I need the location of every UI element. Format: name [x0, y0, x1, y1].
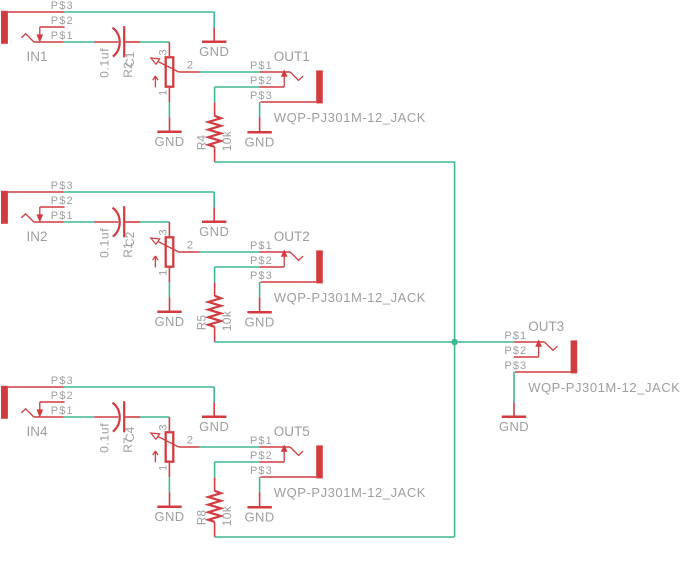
svg-text:GND: GND [154, 509, 184, 524]
capacitor C2 [94, 206, 140, 237]
svg-text:IN2: IN2 [27, 229, 48, 244]
svg-text:P$3: P$3 [250, 270, 273, 282]
svg-text:GND: GND [199, 419, 229, 434]
wire mix bus (vertical) [454, 162, 456, 537]
output jack OUT2 (WQP-PJ301M-12) [259, 250, 322, 283]
wire C1 to R2 pin 3 [140, 41, 169, 43]
wire C4 to R7 pin 3 [140, 416, 169, 418]
svg-text:P$1: P$1 [250, 240, 273, 252]
wire OUT1 P$2 to R4 [215, 87, 260, 103]
wire IN1 P$3 to GND [64, 12, 215, 28]
svg-text:P$3: P$3 [51, 180, 74, 192]
svg-text:P$1: P$1 [51, 30, 74, 42]
svg-text:2: 2 [187, 240, 193, 252]
svg-text:GND: GND [245, 510, 275, 525]
svg-text:GND: GND [154, 134, 184, 149]
svg-text:C1: C1 [123, 51, 137, 67]
svg-text:P$1: P$1 [51, 210, 74, 222]
wire IN1 P$1 to C1 [64, 41, 95, 43]
output jack OUT5 (WQP-PJ301M-12) [259, 445, 322, 478]
input jack IN2 (WQP-PJ301M-12) [1, 191, 65, 224]
svg-text:1: 1 [157, 90, 169, 96]
svg-text:P$2: P$2 [51, 15, 74, 27]
svg-text:IN4: IN4 [27, 424, 49, 439]
wire R8 to mix bus [215, 536, 455, 538]
svg-text:R4: R4 [194, 135, 208, 151]
svg-text:WQP-PJ301M-12_JACK: WQP-PJ301M-12_JACK [274, 290, 426, 305]
svg-text:P$1: P$1 [250, 435, 273, 447]
svg-text:C4: C4 [123, 426, 137, 442]
ground (OUT3) [499, 402, 529, 434]
wire OUT1 P$3 to GND [259, 102, 261, 117]
svg-text:R5: R5 [194, 315, 208, 331]
svg-text:P$3: P$3 [250, 465, 273, 477]
ground (OUT2) [245, 297, 275, 329]
svg-text:P$1: P$1 [51, 405, 74, 417]
ground (IN2 sleeve) [199, 208, 229, 240]
svg-text:P$3: P$3 [51, 0, 74, 12]
svg-text:P$2: P$2 [504, 345, 527, 357]
wire R7 pin 1 to GND [168, 477, 170, 492]
ground (OUT5) [245, 492, 275, 524]
ground (R7) [154, 492, 184, 524]
svg-text:3: 3 [158, 49, 170, 55]
svg-text:3: 3 [158, 424, 170, 430]
svg-text:3: 3 [158, 229, 170, 235]
wire R1 pin 2 to OUT2 P$1 [200, 251, 260, 253]
svg-text:GND: GND [154, 314, 184, 329]
svg-text:P$2: P$2 [250, 75, 273, 87]
svg-text:GND: GND [245, 315, 275, 330]
wire C2 to R1 pin 3 [140, 221, 169, 223]
wire OUT5 P$3 to GND [259, 477, 261, 492]
resistor R5 10k [208, 283, 221, 342]
input jack IN4 (WQP-PJ301M-12) [1, 386, 65, 419]
svg-text:GND: GND [199, 224, 229, 239]
svg-text:C2: C2 [123, 231, 137, 247]
svg-text:GND: GND [199, 44, 229, 59]
svg-text:GND: GND [245, 135, 275, 150]
svg-text:P$2: P$2 [250, 450, 273, 462]
ground (OUT1) [245, 117, 275, 149]
potentiometer R7 [151, 417, 200, 477]
wire IN4 P$1 to C4 [64, 416, 95, 418]
ground (IN1 sleeve) [199, 28, 229, 60]
svg-text:10k: 10k [220, 130, 234, 151]
wire IN4 P$3 to GND [64, 387, 215, 403]
junction mix bus / OUT3 [451, 339, 458, 346]
svg-text:1: 1 [157, 465, 169, 471]
capacitor C4 [94, 401, 140, 432]
input jack IN1 (WQP-PJ301M-12) [1, 11, 65, 44]
svg-text:P$2: P$2 [51, 390, 74, 402]
potentiometer R2 [151, 42, 200, 102]
ground (R2) [154, 117, 184, 149]
svg-text:0.1uf: 0.1uf [98, 48, 112, 78]
svg-text:IN1: IN1 [27, 49, 48, 64]
wire R4 to mix bus [215, 161, 455, 163]
svg-text:P$2: P$2 [250, 255, 273, 267]
svg-text:10k: 10k [220, 310, 234, 331]
wire R7 pin 2 to OUT5 P$1 [200, 446, 260, 448]
svg-text:P$3: P$3 [250, 90, 273, 102]
wire R5 to mix bus [215, 341, 514, 343]
svg-text:WQP-PJ301M-12_JACK: WQP-PJ301M-12_JACK [528, 380, 680, 395]
svg-text:2: 2 [187, 60, 193, 72]
wire IN2 P$3 to GND [64, 192, 215, 208]
potentiometer R1 [151, 222, 200, 282]
svg-text:10k: 10k [220, 505, 234, 526]
wire OUT2 P$2 to R5 [215, 267, 260, 283]
svg-text:WQP-PJ301M-12_JACK: WQP-PJ301M-12_JACK [274, 485, 426, 500]
svg-text:OUT3: OUT3 [528, 319, 564, 334]
capacitor C1 [94, 26, 140, 57]
svg-text:P$1: P$1 [250, 60, 273, 72]
wire R1 pin 1 to GND [168, 282, 170, 297]
resistor R4 10k [208, 103, 221, 162]
wire IN2 P$1 to C2 [64, 221, 95, 223]
wire OUT3 P$3 to GND [513, 372, 515, 402]
svg-text:P$3: P$3 [51, 375, 74, 387]
output jack OUT1 (WQP-PJ301M-12) [259, 70, 322, 103]
svg-text:P$2: P$2 [51, 195, 74, 207]
svg-text:P$3: P$3 [504, 360, 527, 372]
svg-text:OUT1: OUT1 [274, 49, 310, 64]
output jack OUT3 (WQP-PJ301M-12) [514, 340, 577, 373]
svg-text:0.1uf: 0.1uf [98, 228, 112, 258]
svg-text:2: 2 [187, 435, 193, 447]
svg-text:OUT5: OUT5 [274, 424, 310, 439]
svg-text:WQP-PJ301M-12_JACK: WQP-PJ301M-12_JACK [274, 110, 426, 125]
ground (R1) [154, 297, 184, 329]
wire R2 pin 2 to OUT1 P$1 [200, 71, 260, 73]
svg-text:0.1uf: 0.1uf [98, 423, 112, 453]
wire OUT5 P$2 to R8 [215, 462, 260, 478]
svg-text:P$1: P$1 [504, 330, 527, 342]
svg-text:GND: GND [499, 419, 529, 434]
wire OUT2 P$3 to GND [259, 282, 261, 297]
ground (IN4 sleeve) [199, 403, 229, 435]
wire R2 pin 1 to GND [168, 102, 170, 117]
svg-text:OUT2: OUT2 [274, 229, 310, 244]
svg-text:R8: R8 [194, 510, 208, 526]
resistor R8 10k [208, 478, 221, 537]
svg-text:1: 1 [157, 270, 169, 276]
